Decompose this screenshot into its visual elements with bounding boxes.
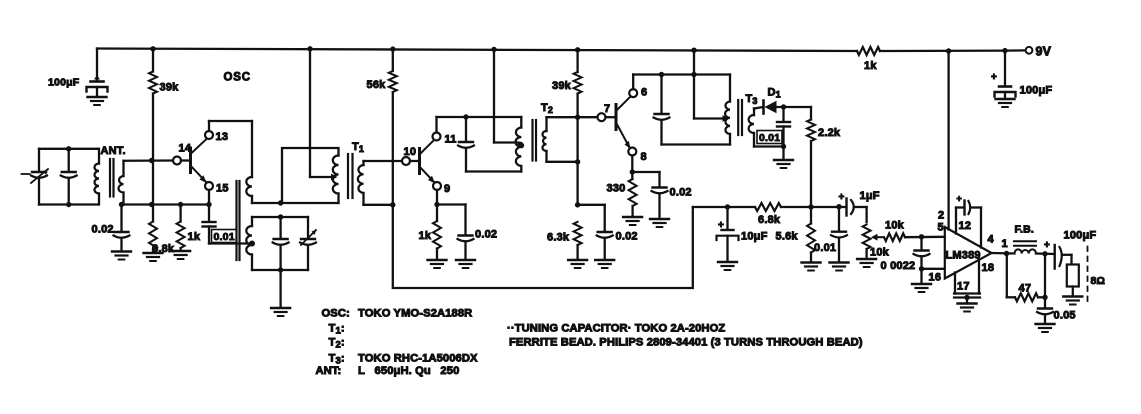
svg-text:0.02: 0.02 [92, 224, 114, 236]
capacitor fixed (OSC tank) [279, 217, 281, 239]
transformer OSC lower winding [251, 217, 253, 226]
capacitor 0.01 (audio) [838, 207, 840, 231]
svg-text:ANT:: ANT: [316, 365, 342, 377]
ground (pot) [857, 258, 876, 260]
svg-text:16: 16 [929, 272, 942, 284]
pot wiper arrow [877, 236, 885, 238]
svg-text:T1: T1 [352, 141, 364, 154]
ferrite bead F.B. [1015, 249, 1037, 253]
svg-text:17: 17 [957, 281, 970, 293]
wire Q3 base node column [576, 117, 578, 205]
svg-text:LM389: LM389 [946, 250, 981, 262]
wire Q2 collector to T2 primary [435, 117, 437, 133]
svg-text:100μF: 100μF [1020, 85, 1053, 97]
capacitor 0.01 (detector filter, boxed label) [782, 107, 784, 122]
wire ANT tank bottom [39, 203, 97, 205]
transistor Q1 collector lead [191, 140, 207, 155]
svg-text:39k: 39k [552, 80, 572, 92]
capacitor 10uF (AGC filter) [726, 207, 728, 230]
svg-text:T2: T2 [541, 102, 553, 115]
svg-text:ANT.: ANT. [101, 145, 126, 157]
capacitor 0.02 (Q2 emitter) [459, 234, 473, 236]
svg-text:6.8k: 6.8k [758, 214, 781, 226]
svg-text:10μF: 10μF [741, 231, 768, 243]
wire T2 secondary bottom [547, 161, 578, 163]
svg-text:0.01: 0.01 [814, 242, 836, 254]
wire audio bus [693, 206, 755, 208]
wire 0.0022 to pin 16 [922, 268, 945, 270]
resistor 39k (Q3 bias) [576, 50, 578, 72]
capacitor 1uF (coupling) [845, 199, 847, 216]
capacitor 100uF (supply filter, right) [1004, 51, 1006, 86]
svg-text:TOKO YMO-S2A188R: TOKO YMO-S2A188R [358, 308, 472, 320]
svg-text:T2:: T2: [329, 337, 345, 351]
svg-text:0.02: 0.02 [475, 229, 497, 241]
wire T1 primary loop [282, 148, 339, 203]
wire FB to output cap [1036, 252, 1055, 255]
svg-text:D1: D1 [768, 87, 781, 100]
wire rail drop to T3 tap [693, 50, 695, 118]
svg-text:F.B.: F.B. [1015, 224, 1034, 236]
capacitor bypass pin 17 [954, 273, 956, 294]
pin circle 11 (Q2 collector) [433, 133, 441, 141]
diode D1 cathode bar [762, 101, 765, 114]
wire T3 secondary bottom [754, 145, 784, 147]
svg-text:0 0022: 0 0022 [881, 260, 916, 272]
wire Q3 collector top [632, 75, 634, 90]
svg-text:5.6k: 5.6k [776, 231, 799, 243]
diode D1 (detector) [765, 101, 777, 113]
pin circle 15 (Q1 emitter) [205, 182, 213, 190]
svg-text:12: 12 [959, 220, 972, 232]
wire T3 tank bottom [662, 143, 731, 145]
resistor 2.2k [810, 107, 812, 120]
svg-text:13: 13 [216, 131, 229, 143]
transistor Q1 emitter lead with arrow [191, 166, 206, 182]
op-amp U1 LM389 triangle [945, 227, 992, 279]
svg-text:7: 7 [604, 103, 610, 115]
capacitor variable (OSC tuning) [307, 217, 309, 239]
svg-text:1μF: 1μF [860, 190, 880, 202]
svg-text:T1:: T1: [329, 323, 345, 337]
svg-text:15: 15 [216, 183, 229, 195]
svg-text:10k: 10k [885, 220, 905, 232]
ground (0.05) [1036, 323, 1055, 325]
ground (right 100uF) [996, 98, 1015, 100]
transistor Q1 base lead + pin-14 circle [173, 157, 181, 165]
ground (OSC tank) [271, 307, 290, 309]
svg-text:+: + [1044, 240, 1050, 251]
capacitor 0.02 (Q3 base) [598, 231, 612, 233]
transistor Q3 collector lead [616, 97, 631, 112]
dash (gang link to tuning capacitor) [22, 173, 30, 175]
svg-text:TOKO RHC-1A5006DX: TOKO RHC-1A5006DX [358, 353, 478, 365]
wire T2 secondary top to Q3 base [547, 116, 598, 118]
wire 9V supply rail (top) [97, 49, 857, 52]
svg-text:OSC: OSC [224, 72, 251, 84]
capacitor C1 100uF (supply filter, left) [96, 49, 98, 81]
svg-text:1k: 1k [419, 230, 432, 242]
capacitor (T3 primary tank) [660, 75, 662, 114]
wire rail drop to T1 primary tap [309, 49, 311, 178]
svg-text:8: 8 [641, 151, 647, 163]
wire T2 tank bottom [466, 170, 521, 172]
svg-text:+: + [991, 72, 997, 83]
resistor 39k (Q1 bias) [152, 49, 154, 72]
junction dots Q1 bias node [149, 158, 154, 163]
capacitor fixed (ANT tank) [68, 149, 70, 172]
resistor 6.3k [574, 222, 582, 245]
svg-text:39k: 39k [160, 82, 180, 94]
wire 0.01 to OSC coil tap [209, 242, 252, 244]
svg-text:9V: 9V [1036, 45, 1052, 59]
junction dots on supply rail [150, 46, 155, 51]
transformer ANT primary winding [97, 148, 99, 150]
wire T1 secondary to Q2 base [364, 160, 403, 162]
wire Q1 emitter to 0.01 [208, 190, 210, 205]
transistor Q2 base bar [418, 149, 421, 174]
transformer T3 secondary winding [749, 115, 754, 133]
resistor 1k (supply rail decoupling) [857, 47, 880, 55]
ground (0.02 Q3) [650, 218, 669, 220]
ground (1k Q1) [171, 250, 190, 252]
wire ANT secondary bottom to bias node [122, 203, 210, 205]
wire ANT secondary to Q1 base [124, 159, 174, 162]
potentiometer 10k (volume) [863, 225, 871, 250]
svg-text:11: 11 [445, 134, 457, 146]
ground (ANT 0.02) [112, 250, 131, 252]
wire 39k to base node [152, 161, 154, 205]
boxed label 0.01 (detector) [757, 131, 782, 144]
ground (pin 17) [958, 302, 977, 304]
capacitor 0.02 (ANT bypass) [120, 205, 122, 232]
svg-text:56k: 56k [367, 79, 387, 91]
svg-text:100μF: 100μF [48, 77, 80, 89]
svg-text:2.2k: 2.2k [818, 127, 841, 139]
transformer T3 primary winding [729, 75, 731, 102]
resistor 10k (series) [884, 233, 905, 241]
pin circle 9 (Q2 emitter) [433, 182, 441, 190]
svg-text:L 650μH. Qu 250: L 650μH. Qu 250 [358, 365, 459, 377]
capacitor variable (tuning, ANT tank) [38, 149, 40, 172]
resistor 330 (Q3 emitter) [631, 172, 633, 179]
transformer T3 core [737, 100, 739, 135]
svg-text:10k: 10k [870, 247, 890, 259]
ground (1k Q2) [428, 259, 447, 261]
speaker 8-ohm (resistor body) [1067, 265, 1079, 287]
wire rail drop to T2 primary tap [493, 49, 495, 143]
transistor Q2 collector lead [420, 141, 434, 155]
svg-text:1k: 1k [188, 231, 201, 243]
svg-text:0.02: 0.02 [616, 231, 638, 243]
ground (5.6k) [802, 261, 821, 263]
capacitor 0.01 (Q1 emitter, boxed label) [208, 205, 210, 222]
transistor Q2 emitter lead with arrow [420, 167, 435, 183]
capacitor 0.0022 [920, 237, 922, 250]
capacitor (T2 primary tank) [465, 117, 467, 142]
svg-text:100μF: 100μF [1064, 230, 1097, 242]
wire OSC tank top [252, 216, 308, 218]
resistor 1k (Q2 emitter) [436, 205, 438, 222]
svg-text:2: 2 [938, 210, 944, 222]
transformer ANT core [109, 159, 111, 197]
ground (0.01 audio) [830, 261, 849, 263]
pin circle 6 (Q3 collector) [629, 89, 637, 97]
svg-text:0.01: 0.01 [759, 132, 780, 144]
wire ANT tank top [39, 148, 97, 150]
pin circle 10 (Q2 base) [402, 157, 410, 165]
svg-text:1: 1 [1002, 238, 1008, 250]
wire OSC secondary to T1 primary bottom [252, 202, 339, 204]
transformer OSC core [235, 181, 237, 260]
ground (330) [623, 216, 642, 218]
ground (6.8k) [144, 252, 163, 254]
ground (speaker) [1063, 295, 1082, 297]
wire Q1 collector to OSC coil [208, 121, 210, 131]
svg-text:8Ω: 8Ω [1091, 275, 1106, 287]
wire LM389 output [992, 252, 1015, 255]
svg-text:+: + [718, 220, 724, 231]
capacitor 0.02 (Q3 emitter) [658, 172, 660, 187]
wire pin 17 ground stem [966, 298, 968, 304]
svg-text:+: + [957, 194, 962, 204]
transformer T1 primary winding [333, 156, 339, 194]
transformer T2 core [531, 120, 533, 161]
transistor Q1 base bar [189, 148, 192, 173]
resistor 47 (zobel) [1006, 254, 1008, 297]
capacitor bypass pin 12 [955, 208, 957, 234]
wire detector ground stem [782, 147, 784, 160]
svg-text:9: 9 [444, 183, 450, 195]
svg-text:OSC:: OSC: [322, 308, 350, 320]
transistor Q3 emitter lead with arrow [616, 123, 630, 148]
svg-text:10: 10 [404, 146, 417, 158]
svg-text:··TUNING CAPACITOR· TOKO 2A-20: ··TUNING CAPACITOR· TOKO 2A-20HOZ [507, 323, 725, 335]
transformer T2 primary winding [520, 117, 522, 128]
svg-text:14: 14 [179, 143, 192, 155]
dashed line (speaker boundary) [1087, 247, 1089, 303]
svg-text:6.8k: 6.8k [152, 243, 175, 255]
svg-text:0.02: 0.02 [670, 187, 692, 199]
svg-text:T3: T3 [746, 93, 758, 106]
boxed label 0.01 [212, 230, 237, 243]
wire speaker to ground [1072, 287, 1074, 297]
resistor 6.8k (Q1) [152, 205, 154, 222]
capacitor 100uF (output coupling) [1053, 245, 1055, 269]
wire D1 output [777, 106, 812, 108]
svg-text:FERRITE BEAD. PHILIPS 2809-344: FERRITE BEAD. PHILIPS 2809-34401 (3 TURN… [509, 337, 863, 349]
transformer T2 secondary winding [542, 131, 546, 151]
wire OSC tank bottom [252, 269, 308, 271]
pin circle 7 (Q3 base) [598, 113, 606, 121]
pin circle 8 (Q3 emitter) [628, 148, 636, 156]
ground (0.02 base) [595, 259, 614, 261]
svg-text:47: 47 [1019, 283, 1032, 295]
capacitor 0.05 (zobel) [1044, 254, 1046, 297]
resistor 1k (Q1 emitter bias) [179, 205, 181, 222]
terminal 9V (open circle) [1026, 47, 1033, 54]
resistor 56k (Q2 bias) [392, 49, 394, 71]
svg-text:0.05: 0.05 [1054, 310, 1076, 322]
svg-text:18: 18 [982, 262, 995, 274]
junction dots audio bus [725, 204, 730, 209]
ground (detector) [774, 159, 793, 161]
wire base column to 0.02 [578, 204, 605, 206]
wire AGC bottom bus [393, 205, 693, 288]
wire Q3 emitter node [631, 156, 633, 173]
svg-text:5: 5 [938, 222, 944, 234]
pin circle 13 (Q1 collector) [205, 131, 213, 139]
transformer T1 secondary winding [358, 165, 364, 193]
ground (C1) [88, 96, 107, 98]
svg-text:1k: 1k [864, 60, 877, 72]
transformer ANT secondary winding [119, 176, 124, 193]
wire supply rail to pin 2 [947, 51, 949, 230]
ground (0.0022) [912, 283, 931, 285]
svg-text:330: 330 [607, 183, 626, 195]
svg-text:+: + [839, 192, 845, 203]
wire 0.0022 ground stem [920, 269, 922, 284]
resistor 5.6k [810, 207, 812, 224]
svg-text:0.01: 0.01 [214, 231, 235, 243]
wire pot to LM389 input pin 5 [905, 236, 945, 239]
svg-text:6.3k: 6.3k [547, 232, 570, 244]
ground (0.02 Q2) [456, 259, 475, 261]
ground (10uF) [718, 261, 737, 263]
transformer OSC upper winding [246, 177, 252, 196]
wire OSC tank to ground [279, 270, 281, 308]
transformer T1 core [347, 154, 349, 198]
resistor 6.8k (audio) [755, 203, 781, 211]
wire T1 secondary bottom to 56k [364, 204, 393, 206]
ground (6.3k) [568, 259, 587, 261]
svg-text:4: 4 [988, 234, 995, 246]
wire Q2 emitter node [436, 190, 438, 205]
svg-text:6: 6 [641, 87, 647, 99]
transistor Q3 base bar [615, 105, 618, 130]
